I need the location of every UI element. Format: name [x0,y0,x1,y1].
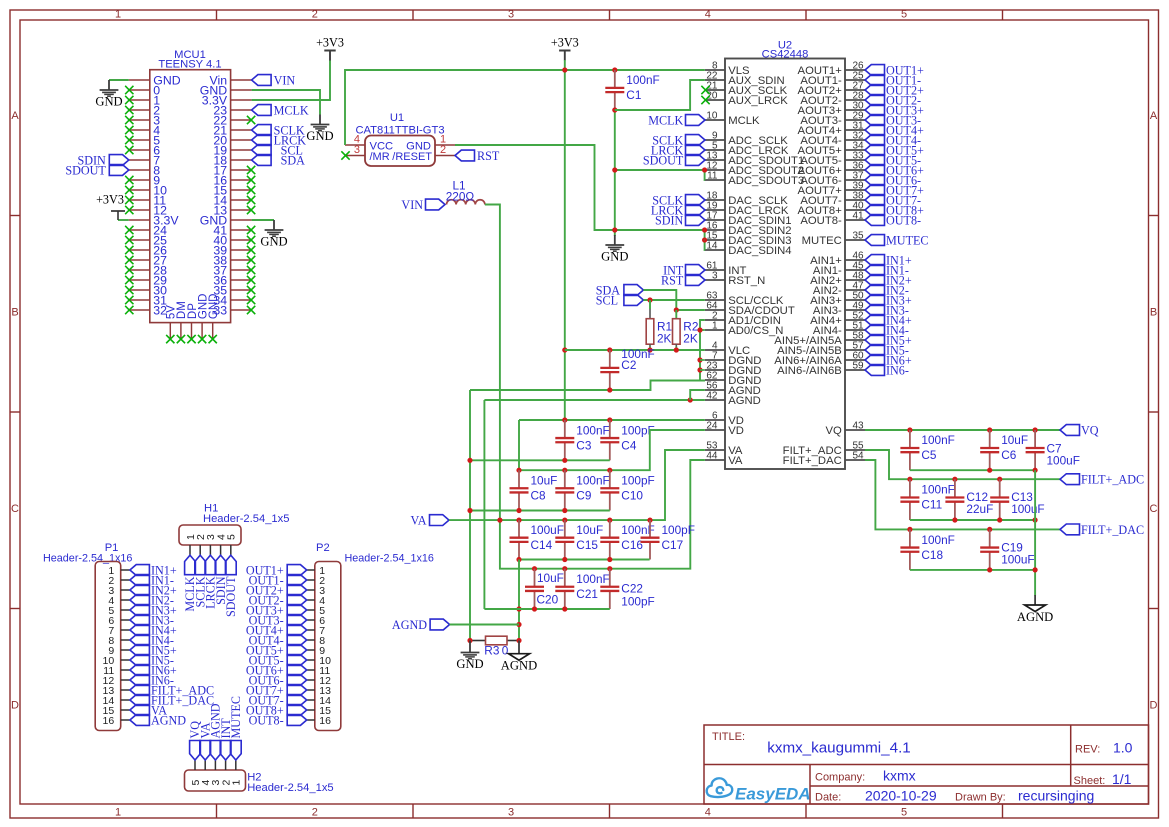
svg-text:DAC_SDIN4: DAC_SDIN4 [728,245,791,257]
svg-text:VD: VD [728,425,744,437]
svg-text:41: 41 [853,211,865,222]
svg-text:24: 24 [706,421,718,432]
svg-text:5: 5 [901,807,907,819]
svg-text:2K: 2K [657,332,672,346]
svg-text:Drawn By:: Drawn By: [955,792,1006,804]
svg-text:Company:: Company: [815,772,865,784]
svg-text:/RESET: /RESET [392,151,432,163]
svg-text:16: 16 [319,715,331,727]
svg-text:10uF: 10uF [1001,433,1028,447]
svg-text:C3: C3 [576,438,592,452]
svg-text:recursinging: recursinging [1018,788,1094,804]
svg-text:+3V3: +3V3 [96,193,124,207]
svg-text:100nF: 100nF [576,473,609,487]
svg-text:FILT+_DAC: FILT+_DAC [783,455,842,467]
svg-text:VIN: VIN [401,198,423,212]
svg-text:MCLK: MCLK [728,115,760,127]
svg-text:VQ: VQ [825,425,842,437]
svg-text:RST: RST [661,273,684,287]
svg-text:OUT8-: OUT8- [886,213,921,227]
svg-text:C6: C6 [1001,448,1017,462]
svg-text:TITLE:: TITLE: [712,731,745,743]
svg-text:MCLK: MCLK [274,103,309,117]
svg-text:42: 42 [706,391,718,402]
svg-text:44: 44 [706,451,718,462]
svg-text:VA: VA [411,514,427,528]
svg-text:SDA: SDA [281,153,306,167]
svg-text:IN6-: IN6- [886,363,909,377]
svg-text:C2: C2 [621,358,636,372]
svg-text:+3V3: +3V3 [551,36,579,50]
svg-text:3: 3 [508,9,514,21]
svg-text:GND: GND [208,294,220,320]
svg-text:C9: C9 [576,488,591,502]
svg-text:RST_N: RST_N [728,275,765,287]
svg-text:35: 35 [853,231,865,242]
svg-text:2: 2 [312,807,318,819]
svg-text:AUX_LRCK: AUX_LRCK [728,95,788,107]
svg-text:GND: GND [456,657,483,671]
svg-text:kxmx: kxmx [883,768,916,784]
svg-text:100uF: 100uF [531,523,564,537]
svg-text:100nF: 100nF [626,73,659,87]
svg-text:kxmx_kaugummi_4.1: kxmx_kaugummi_4.1 [767,740,911,757]
svg-text:C21: C21 [576,587,598,601]
svg-text:FILT+_DAC: FILT+_DAC [1081,523,1144,537]
svg-text:Header-2.54_1x5: Header-2.54_1x5 [247,782,333,794]
svg-text:C1: C1 [626,88,641,102]
svg-text:C16: C16 [621,538,643,552]
svg-text:4: 4 [705,807,711,819]
svg-text:100uF: 100uF [1001,552,1034,566]
svg-text:C15: C15 [576,538,598,552]
svg-text:AIN6-/AIN6B: AIN6-/AIN6B [777,365,842,377]
svg-text:10uF: 10uF [531,473,558,487]
svg-text:3: 3 [354,144,360,156]
svg-text:SDOUT: SDOUT [65,163,106,177]
svg-text:16: 16 [103,715,115,727]
svg-text:1.0: 1.0 [1113,740,1133,756]
svg-text:VIN: VIN [274,73,296,87]
svg-text:C8: C8 [531,488,547,502]
svg-text:SDOUT: SDOUT [224,576,238,617]
svg-text:100nF: 100nF [576,423,609,437]
svg-text:TEENSY 4.1: TEENSY 4.1 [158,59,221,71]
svg-text:AOUT8-: AOUT8- [800,215,842,227]
svg-text:GND: GND [260,235,287,249]
svg-text:C: C [1150,503,1158,515]
svg-text:2: 2 [312,9,318,21]
svg-text:1: 1 [231,780,243,786]
svg-text:C5: C5 [921,448,937,462]
svg-text:5: 5 [226,534,238,540]
svg-text:2: 2 [440,144,446,156]
svg-text:3: 3 [712,271,718,282]
svg-text:REV:: REV: [1075,744,1100,756]
svg-text:100nF: 100nF [576,572,609,586]
svg-text:3: 3 [508,807,514,819]
svg-text:U1: U1 [390,112,404,124]
svg-text:MCLK: MCLK [648,113,683,127]
svg-text:MUTEC: MUTEC [886,233,929,247]
svg-text:100pF: 100pF [621,473,654,487]
svg-text:B: B [1150,307,1157,319]
svg-text:Header-2.54_1x16: Header-2.54_1x16 [345,552,434,564]
svg-text:VA: VA [728,455,743,467]
svg-text:Date:: Date: [815,792,841,804]
svg-text:4: 4 [705,9,711,21]
svg-text:14: 14 [706,241,718,252]
svg-text:10: 10 [706,111,718,122]
svg-text:C18: C18 [921,548,943,562]
svg-text:C20: C20 [537,593,559,607]
svg-text:B: B [11,307,18,319]
svg-text:FILT+_ADC: FILT+_ADC [1081,473,1144,487]
svg-text:AGND: AGND [392,618,427,632]
svg-text:AGND: AGND [1017,610,1053,624]
svg-text:R3: R3 [484,643,500,657]
svg-text:5: 5 [901,9,907,21]
svg-text:A: A [1150,110,1158,122]
svg-text:59: 59 [853,361,865,372]
svg-text:RST: RST [477,149,500,163]
svg-text:1: 1 [115,807,121,819]
svg-text:1/1: 1/1 [1112,771,1132,787]
svg-text:GND: GND [306,129,333,143]
svg-text:MUTEC: MUTEC [802,235,842,247]
svg-text:43: 43 [853,421,865,432]
svg-text:C17: C17 [662,538,684,552]
svg-text:D: D [11,700,19,712]
svg-text:C: C [11,503,19,515]
svg-text:D: D [1150,700,1158,712]
svg-text:MUTEC: MUTEC [229,696,243,739]
svg-text:100nF: 100nF [921,483,954,497]
svg-text:Header-2.54_1x5: Header-2.54_1x5 [203,513,289,525]
svg-text:SCL: SCL [596,293,618,307]
svg-text:100pF: 100pF [662,523,695,537]
svg-text:220Ω: 220Ω [446,189,475,203]
svg-text:100pF: 100pF [621,594,654,608]
svg-text:Sheet:: Sheet: [1074,775,1106,787]
svg-text:AGND: AGND [728,395,761,407]
svg-text:VQ: VQ [1081,423,1099,437]
svg-text:C11: C11 [921,498,942,512]
svg-text:1: 1 [712,321,718,332]
svg-text:100nF: 100nF [921,433,954,447]
svg-text:ADC_SDOUT3: ADC_SDOUT3 [728,175,804,187]
svg-text:2K: 2K [683,332,698,346]
svg-text:+3V3: +3V3 [316,36,344,50]
svg-text:100uF: 100uF [1011,502,1044,516]
svg-text:22uF: 22uF [966,502,993,516]
svg-text:10uF: 10uF [537,571,564,585]
svg-text:11: 11 [707,171,718,182]
svg-text:GND: GND [95,95,122,109]
svg-text:C4: C4 [621,438,637,452]
svg-text:AGND: AGND [151,713,186,727]
svg-text:GND: GND [601,250,628,264]
svg-text:EasyEDA: EasyEDA [735,785,811,804]
svg-text:SDIN: SDIN [655,213,684,227]
svg-text:2020-10-29: 2020-10-29 [865,788,937,804]
svg-text:54: 54 [853,451,865,462]
svg-text:10uF: 10uF [576,523,603,537]
svg-text:P2: P2 [316,542,330,554]
svg-text:A: A [11,110,19,122]
svg-text:SDOUT: SDOUT [643,153,684,167]
svg-text:100nF: 100nF [921,533,954,547]
svg-text:100uF: 100uF [1047,453,1080,467]
svg-text:C14: C14 [531,538,553,552]
svg-text:1: 1 [115,9,121,21]
svg-text:AGND: AGND [501,659,537,673]
svg-text:0: 0 [502,643,509,657]
svg-text:OUT8-: OUT8- [249,713,284,727]
svg-text:C10: C10 [621,488,643,502]
svg-text:/MR: /MR [370,151,390,163]
